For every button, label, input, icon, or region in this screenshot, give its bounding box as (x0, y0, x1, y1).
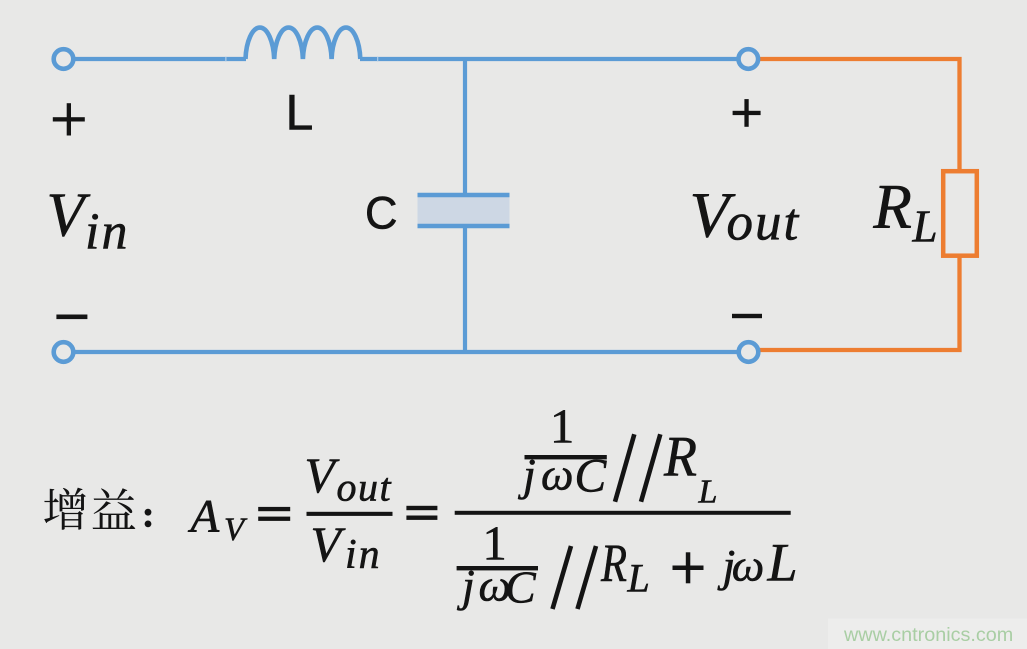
formula: fraction Vout over Vin : denominator (311, 517, 382, 578)
svg-text:www.cntronics.com: www.cntronics.com (843, 624, 1013, 646)
svg-text:R: R (663, 426, 697, 489)
svg-text:in: in (85, 204, 129, 261)
formula: equals sign 1 (258, 507, 290, 521)
terminal: input - (open circle) (54, 342, 74, 362)
formula: denominator jwL term (718, 533, 798, 593)
capacitor C (plates) (418, 195, 510, 226)
formula: Chinese word Zeng (gain) (44, 488, 86, 530)
inductor L (coil of 4 arcs) (246, 28, 361, 59)
label: input polarity + (53, 103, 85, 135)
svg-text:C: C (505, 562, 537, 613)
svg-text:L: L (286, 85, 314, 141)
svg-text:ω: ω (732, 540, 764, 591)
svg-text:C: C (575, 451, 608, 503)
formula: numerator small fraction bar (525, 455, 607, 459)
wire: top segment from inductor to output node (360, 57, 737, 61)
svg-text:V: V (305, 448, 340, 503)
svg-text:out: out (337, 465, 393, 510)
label: Vin (47, 182, 130, 261)
svg-text:in: in (345, 532, 382, 578)
svg-text:out: out (727, 194, 801, 252)
svg-text:V: V (47, 182, 91, 250)
svg-text:C: C (365, 188, 398, 239)
wire: capacitor branch upper (463, 59, 467, 196)
formula: denominator jwC (457, 560, 537, 613)
wire: orange from RL bottom to output - (757, 257, 960, 350)
formula: numerator parallel slashes (615, 434, 660, 502)
terminal: output + (open circle) (739, 49, 759, 69)
terminal: output - (open circle) (739, 342, 759, 362)
formula: denominator RL (600, 533, 650, 601)
formula: numerator jwC (518, 449, 608, 503)
svg-text:A: A (188, 491, 220, 543)
label: RL (load resistor) (872, 172, 937, 252)
label: input polarity - (56, 315, 87, 320)
wire: capacitor branch lower (463, 226, 467, 352)
watermark band (828, 619, 1027, 649)
svg-text:ω: ω (541, 449, 573, 500)
label: output polarity - (732, 314, 762, 318)
svg-text:L: L (698, 474, 718, 511)
formula: denominator small fraction bar (457, 566, 538, 570)
formula: Chinese word Yi (gain) (93, 488, 136, 529)
wire: top input segment (75, 57, 246, 61)
resistor RL (rectangle body) (943, 171, 977, 256)
wire: orange from output + to RL top (756, 59, 960, 169)
formula: equals sign 2 (406, 506, 437, 520)
svg-text:R: R (600, 533, 627, 593)
svg-text:1: 1 (550, 400, 574, 453)
wire: bottom return wire (75, 350, 737, 354)
svg-text:L: L (912, 202, 938, 252)
formula: plus sign (673, 552, 704, 583)
wire joint seam (left of inductor) (225, 57, 226, 62)
formula: fraction Vout over Vin : numerator (305, 448, 393, 510)
formula: Av (188, 491, 249, 549)
svg-text:L: L (767, 533, 798, 593)
svg-text:V: V (311, 517, 346, 572)
svg-text:L: L (627, 556, 650, 601)
svg-text:R: R (872, 172, 911, 242)
terminal: input + (open circle) (54, 49, 74, 69)
label: Vout (690, 180, 801, 252)
formula: fraction bar Vout/Vin (307, 512, 393, 516)
label: output polarity + (733, 99, 761, 127)
formula: numerator RL (663, 426, 717, 511)
formula: main fraction bar (455, 511, 791, 515)
formula: fullwidth colon (145, 509, 152, 527)
formula: denominator parallel slashes (553, 546, 597, 609)
wire joint seam (right of inductor) (377, 57, 378, 62)
